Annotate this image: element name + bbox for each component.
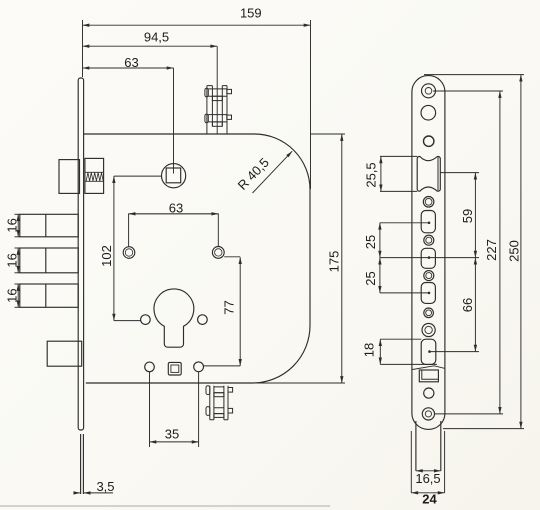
- svg-text:24: 24: [422, 492, 437, 507]
- svg-text:63: 63: [169, 201, 183, 216]
- svg-text:102: 102: [99, 245, 114, 267]
- svg-text:25: 25: [363, 235, 378, 249]
- svg-text:25: 25: [363, 271, 378, 285]
- svg-text:94,5: 94,5: [144, 30, 169, 45]
- svg-text:250: 250: [507, 240, 522, 262]
- svg-text:16: 16: [4, 288, 19, 302]
- svg-text:R 40,5: R 40,5: [235, 155, 272, 193]
- svg-text:16: 16: [4, 253, 19, 267]
- svg-text:18: 18: [362, 343, 377, 357]
- svg-text:16,5: 16,5: [415, 471, 440, 486]
- svg-text:227: 227: [484, 239, 499, 261]
- svg-text:35: 35: [165, 427, 179, 442]
- svg-text:3,5: 3,5: [96, 479, 114, 494]
- svg-text:59: 59: [460, 209, 475, 223]
- svg-text:175: 175: [326, 251, 341, 273]
- svg-text:63: 63: [124, 55, 138, 70]
- svg-text:159: 159: [240, 6, 262, 21]
- svg-text:25,5: 25,5: [364, 162, 379, 187]
- svg-text:77: 77: [222, 300, 237, 314]
- svg-text:66: 66: [460, 298, 475, 312]
- svg-text:16: 16: [4, 218, 19, 232]
